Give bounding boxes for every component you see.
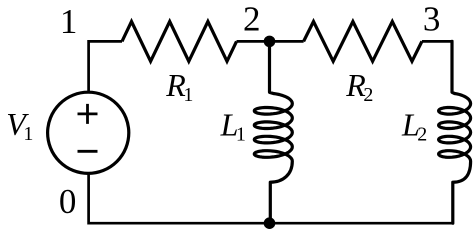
wire: node 2 to R2 (270, 40, 304, 43)
svg-text:V1: V1 (6, 106, 33, 145)
resistor R2 (304, 22, 422, 62)
V1 plus sign (78, 104, 98, 124)
resistor R1 (122, 22, 237, 62)
inductor L2 (with stubs) (439, 41, 471, 223)
V1 minus sign (78, 150, 98, 153)
wire: R1 to node 2 (237, 40, 270, 43)
node 2 junction dot (264, 36, 276, 48)
svg-text:3: 3 (423, 0, 441, 38)
svg-text:L1: L1 (220, 106, 246, 145)
inductor L1 (with stubs) (254, 41, 292, 223)
bottom junction dot (264, 217, 276, 229)
wire: V1 bottom stub and bottom rail (89, 173, 453, 223)
svg-text:0: 0 (59, 182, 77, 221)
wire: R2 to node 3 corner (422, 41, 452, 44)
svg-text:1: 1 (60, 2, 78, 41)
svg-text:R1: R1 (165, 67, 193, 106)
svg-text:L2: L2 (401, 106, 427, 145)
svg-text:2: 2 (243, 0, 261, 38)
voltage source V1 circle (48, 92, 129, 173)
svg-text:R2: R2 (345, 67, 373, 106)
wire: node1 corner, V1 top stub to R1 left lead (89, 41, 122, 92)
